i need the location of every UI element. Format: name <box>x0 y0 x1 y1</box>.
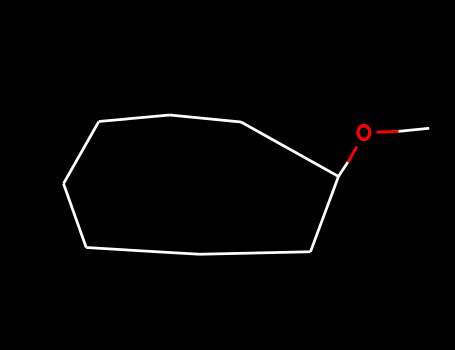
wire ring bond L-TL <box>64 122 99 184</box>
wire O-ring bond carbon half (white) <box>339 162 348 176</box>
wire ring bond BR-BM <box>200 252 311 255</box>
wire O-ring bond oxygen half (red) <box>348 147 357 162</box>
wire O-CH3 bond carbon half (white) <box>398 128 429 131</box>
wire O-CH3 bond oxygen half (red) <box>377 130 399 134</box>
wire ring bond BM-BL <box>86 248 199 255</box>
wire ring bond BL-L <box>64 184 87 248</box>
wire ring bond TM-TR <box>170 115 241 122</box>
wire ring bond R-BR <box>311 176 339 251</box>
wire ring bond TR-R <box>241 122 339 176</box>
oxygen atom O (red) <box>358 126 370 140</box>
ring skeleton (white bonds) <box>64 115 430 254</box>
wire ring bond TL-TM <box>99 115 170 122</box>
